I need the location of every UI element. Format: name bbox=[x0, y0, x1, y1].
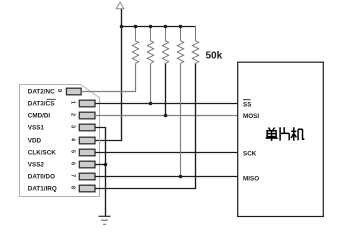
pin number 5 bbox=[70, 150, 76, 153]
pin number 2 bbox=[70, 113, 76, 116]
pin number 9 bbox=[56, 89, 62, 92]
wire: R4 lower lead bbox=[180, 63, 182, 176]
wire: R3 lower lead bbox=[165, 63, 167, 115]
wire: DAT0/DO to MCU MISO bbox=[95, 176, 238, 178]
svg-text:5: 5 bbox=[70, 150, 76, 153]
svg-text:DAT1/IRQ: DAT1/IRQ bbox=[28, 186, 57, 193]
MCU U1 box (microcontroller) bbox=[238, 62, 324, 216]
svg-text:CLK/SCK: CLK/SCK bbox=[28, 150, 56, 157]
wire: DAT2/NC up to R1 bbox=[81, 63, 136, 91]
MCU pin label SS with overline bbox=[243, 100, 251, 109]
pin number 7 bbox=[70, 174, 76, 177]
pin pad 1 (DAT3/CS) bbox=[79, 100, 95, 107]
svg-text:MISO: MISO bbox=[243, 175, 259, 182]
svg-text:4: 4 bbox=[70, 138, 76, 142]
resistor R1 (50k pull-up) bbox=[132, 27, 138, 64]
svg-text:1: 1 bbox=[70, 101, 76, 104]
wire: VSS2 to ground rail bbox=[95, 164, 106, 166]
svg-text:3: 3 bbox=[70, 125, 76, 128]
pin label CLK/SCK bbox=[28, 150, 56, 157]
junction: bus at R2 bbox=[149, 25, 153, 29]
junction: ground rail at VSS2 bbox=[104, 163, 108, 167]
pin pad 8 (DAT1/IRQ) bbox=[79, 185, 95, 192]
svg-text:9: 9 bbox=[56, 89, 62, 92]
svg-text:DAT3/CS: DAT3/CS bbox=[28, 101, 54, 108]
pin number 3 bbox=[70, 125, 76, 128]
junction: CMD net at R3 bbox=[164, 114, 168, 118]
pin pad 6 (VSS2) bbox=[79, 161, 95, 168]
svg-text:DAT0/DO: DAT0/DO bbox=[28, 174, 55, 181]
pin label CMD/DI bbox=[28, 113, 51, 120]
ground symbol bbox=[99, 216, 111, 224]
svg-text:7: 7 bbox=[70, 174, 76, 177]
wire: pull-up bus bbox=[122, 26, 196, 28]
svg-text:8: 8 bbox=[70, 186, 76, 189]
wire: DAT3/CS to MCU SS bbox=[95, 103, 238, 105]
SD card outline bbox=[20, 85, 100, 197]
resistor R5 (50k pull-up) bbox=[192, 27, 198, 64]
MCU pin label MISO bbox=[243, 175, 259, 182]
svg-text:DAT2/NC: DAT2/NC bbox=[28, 89, 55, 96]
junction: bus at R1 bbox=[134, 25, 138, 29]
pin number 4 bbox=[70, 138, 76, 142]
wire: DAT1/IRQ right then up through R5 bbox=[95, 63, 196, 188]
pin pad 7 (DAT0/DO) bbox=[79, 173, 95, 180]
wire: VSS1 to ground rail bbox=[95, 128, 106, 165]
pin number 6 bbox=[70, 162, 76, 165]
junction: bus at power line bbox=[120, 25, 124, 29]
resistor R2 (50k pull-up) bbox=[147, 27, 153, 64]
pin pad 5 (CLK/SCK) bbox=[79, 149, 95, 156]
junction: DAT0 net at R4 bbox=[179, 175, 183, 179]
svg-text:2: 2 bbox=[70, 113, 76, 116]
pin label DAT1/IRQ bbox=[28, 186, 57, 193]
svg-text:6: 6 bbox=[70, 162, 76, 165]
MCU pin label SCK bbox=[243, 150, 257, 157]
svg-text:VSS1: VSS1 bbox=[28, 125, 45, 132]
pin pad 9 (DAT2/NC) bbox=[66, 88, 81, 95]
pin pad 3 (VSS1) bbox=[79, 124, 95, 131]
svg-text:SCK: SCK bbox=[243, 150, 257, 157]
svg-text:CMD/DI: CMD/DI bbox=[28, 113, 51, 120]
wire: CLK/SCK to MCU SCK bbox=[95, 152, 238, 154]
power supply arrow (VDD) bbox=[116, 2, 124, 9]
resistor R4 (50k pull-up) bbox=[177, 27, 183, 64]
resistor R3 (50k pull-up) bbox=[162, 27, 168, 64]
pin number 8 bbox=[70, 186, 76, 189]
wire: ground rail vertical bbox=[105, 165, 107, 217]
svg-text:50k: 50k bbox=[206, 51, 223, 62]
pin number 1 bbox=[70, 101, 76, 104]
pin label VDD bbox=[28, 138, 42, 145]
value label 50k bbox=[206, 51, 223, 62]
pin label VSS1 bbox=[28, 125, 45, 132]
junction: DAT3 net at R2 bbox=[149, 102, 153, 106]
wire: R2 lower lead bbox=[150, 63, 152, 103]
MCU pin label MOSI bbox=[243, 113, 259, 120]
junction: bus at R4 bbox=[179, 25, 183, 29]
pin label DAT2/NC bbox=[28, 89, 55, 96]
pin label VSS2 bbox=[28, 162, 45, 169]
wire: CMD/DI to MCU MOSI bbox=[95, 115, 238, 117]
svg-text:VDD: VDD bbox=[28, 138, 42, 145]
pin label DAT0/DO bbox=[28, 174, 55, 181]
svg-text:VSS2: VSS2 bbox=[28, 162, 45, 169]
junction: bus at R3 bbox=[164, 25, 168, 29]
wire: power vertical from arrow down to VDD row then left to pad 4 bbox=[95, 9, 122, 141]
svg-text:SS: SS bbox=[243, 101, 251, 108]
pin label DAT3/CS with overline bbox=[28, 99, 56, 107]
svg-text:MOSI: MOSI bbox=[243, 113, 259, 120]
MCU title 单片机 (hanzi strokes) bbox=[266, 127, 304, 141]
pin pad 4 (VDD) bbox=[79, 137, 95, 144]
pin pad 2 (CMD/DI) bbox=[79, 112, 95, 119]
